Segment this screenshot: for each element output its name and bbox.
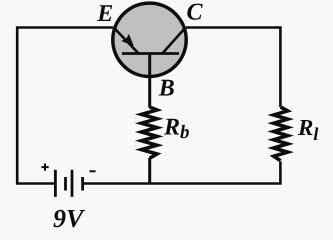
svg-text:B: B	[158, 76, 175, 102]
battery B1 plate 1 (tall, +)	[54, 170, 57, 197]
resistor Rb zigzag	[142, 107, 158, 158]
transistor collector line	[162, 28, 185, 54]
wire bottom from battery to bottom-right corner up to Rl bottom	[84, 162, 281, 184]
wire Rb bottom to bottom wire	[148, 158, 151, 184]
wire base: transistor base bar down to Rb top	[148, 54, 151, 108]
transistor emitter line	[114, 28, 139, 54]
transistor base bar	[122, 52, 179, 55]
resistor Rl zigzag	[274, 107, 288, 161]
wire top-right + right vertical down to Rl	[186, 28, 280, 108]
svg-text:9V: 9V	[53, 204, 86, 233]
emitter arrowhead (PNP, pointing toward base bar)	[121, 34, 134, 46]
battery plus sign	[41, 164, 48, 171]
svg-text:C: C	[187, 0, 204, 26]
battery plate 3 (tall)	[71, 170, 74, 197]
battery plate 4 (short, -)	[81, 177, 84, 191]
svg-text:E: E	[96, 1, 113, 27]
wire top-left loop (top wire, left wire, bottom-left wire to battery)	[17, 28, 113, 184]
battery plate 2 (short)	[64, 177, 67, 191]
transistor Q1 body circle	[113, 3, 186, 76]
battery minus sign	[90, 170, 96, 172]
